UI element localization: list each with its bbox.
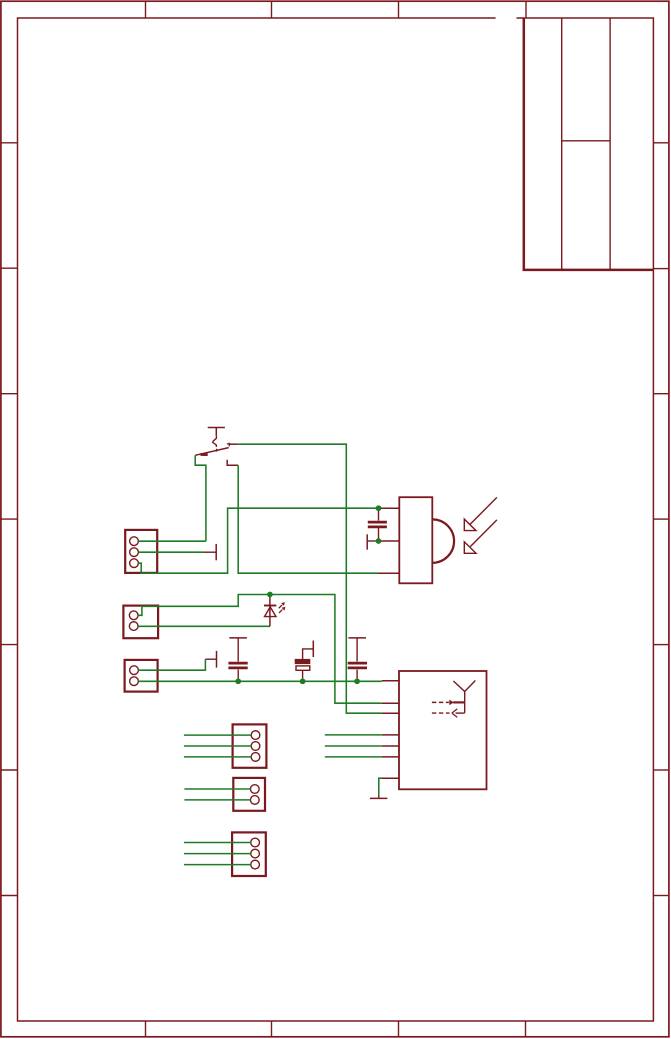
capacitor C1 at IR receiver [368, 508, 387, 541]
switch S1 contact arrow [227, 443, 230, 447]
junction at IR pin1 [376, 505, 382, 511]
module U3 TX arrow [432, 701, 449, 703]
IR receiver U2 dome [432, 519, 454, 562]
wire switch common to connector J1 pin1 [195, 455, 206, 541]
frame left row tick 1 [1, 142, 18, 144]
ground GND1 at connector J1 pin2 [204, 544, 216, 560]
supply VCC at capacitor C2 [229, 638, 247, 662]
connector J2 pin circle 1 [129, 611, 138, 620]
wire connector J3 pin1 to ground [138, 659, 205, 670]
IR receiver U2 pin 2 [379, 540, 400, 542]
LED LED1 [264, 595, 285, 627]
connector J1 [125, 530, 157, 573]
connector J6 pin circle 1 [251, 838, 260, 847]
LED1 cathode bar [264, 605, 276, 607]
wire connector J2 pin2 to LED cathode [138, 625, 270, 627]
connector J4 [233, 724, 267, 767]
supply VCC at capacitor C4 [348, 638, 366, 662]
wire connector J4 pin1 [184, 734, 251, 736]
wire connector J1 pin3 to IR pin1 [138, 508, 378, 573]
IR receiver U2 pin 3 [379, 572, 400, 574]
connector J1 pin circle 1 [130, 537, 139, 546]
title block divider v2 [609, 18, 611, 270]
connector J4 pin circle 3 [251, 753, 260, 762]
IR receiver U2 pin 1 [379, 507, 400, 509]
module U3 antenna [453, 681, 475, 713]
frame right row tick 7 [653, 895, 669, 897]
module U3 pin 7 [382, 777, 399, 779]
wire ground rail connector J3 pin2 to module U3 pin1 [138, 680, 381, 682]
frame right row tick 3 [653, 393, 669, 395]
wire connector J6 pin2 [184, 853, 251, 855]
frame right row tick 2 [653, 268, 669, 270]
connector J3 [125, 660, 158, 692]
LED1 light arrow 2 [279, 610, 282, 613]
switch S1 lever [195, 448, 229, 456]
junction at capacitor C2 [235, 678, 241, 684]
wire connector J1 pin1 [138, 540, 206, 542]
title block left edge [523, 18, 526, 272]
connector J4 pin circle 1 [251, 731, 260, 740]
supply VCC at switch [208, 428, 225, 436]
switch S1 spring actuator [213, 436, 217, 452]
connector J2 [123, 606, 158, 639]
ground GND3 at connector J3 pin1 [205, 651, 216, 668]
module U3 pin 6 [382, 756, 399, 758]
module U3 pin 1 [382, 680, 399, 682]
module U3 pin 3 [382, 712, 399, 714]
frame top column tick 4 [525, 1, 527, 18]
frame top column tick 2 [271, 1, 273, 18]
title block divider h [562, 140, 610, 142]
IR receiver U2 [379, 497, 497, 583]
module U3 pin 2 [382, 702, 399, 704]
junction at LED1 anode [267, 592, 273, 598]
frame left row tick 6 [1, 769, 18, 771]
wire module U3 pin6 [325, 756, 382, 758]
wire switch throw2 to IR pin3 [238, 465, 378, 573]
wire connector J6 pin3 [184, 864, 251, 866]
wire connector J4 pin3 [184, 756, 251, 758]
frame left row tick 2 [1, 267, 18, 269]
title block bottom edge [523, 269, 654, 272]
frame bottom column tick 4 [525, 1021, 527, 1037]
ground GND4 at capacitor C3 [312, 641, 314, 658]
switch S1 throw pin 1 [230, 443, 239, 445]
switch S1 throw pin 2 [227, 460, 238, 466]
wire module U3 pin7 to ground [379, 778, 382, 795]
frame right row tick 1 [653, 142, 669, 144]
wire switch throw1 to module U3 pin3 [238, 444, 382, 713]
frame left row tick 3 [1, 393, 18, 395]
connector J6 [232, 832, 266, 876]
capacitor C2 [228, 663, 247, 681]
frame left row tick 4 [1, 518, 18, 520]
connector J4 pin circle 2 [251, 742, 260, 751]
connector J5 pin circle 2 [250, 796, 259, 805]
frame left row tick 5 [1, 644, 18, 646]
IR ray arrow 1 [470, 497, 497, 524]
wire module U3 pin4 [325, 734, 382, 736]
junction at capacitor C3 [300, 678, 306, 684]
ground GND2 at IR receiver pin2 [367, 534, 378, 549]
frame left row tick 7 [1, 895, 18, 897]
module U3 RX arrow [432, 712, 450, 714]
frame right row tick 4 [653, 518, 669, 520]
connector J1 pin circle 3 [130, 559, 139, 568]
wire connector J2 pin1 to LED and module U3 pin2 [138, 595, 382, 704]
connector J3 pin circle 2 [130, 677, 139, 686]
connector J5 [233, 778, 265, 811]
LED1 stem [269, 595, 271, 627]
wire connector J5 pin1 [184, 788, 250, 790]
module U3 pin 5 [382, 745, 399, 747]
frame right row tick 6 [653, 769, 669, 771]
RF module U3 [382, 671, 487, 789]
switch S1 [195, 428, 238, 466]
junction at IR pin2 [376, 538, 382, 544]
frame bottom column tick 1 [145, 1021, 147, 1037]
IR ray arrow 2 [470, 520, 497, 547]
frame bottom column tick 2 [271, 1021, 273, 1037]
wire connector J4 pin2 [184, 745, 251, 747]
title block divider v1 [561, 18, 563, 270]
polarized capacitor C3 [295, 641, 313, 682]
frame right row tick 5 [653, 644, 669, 646]
connector J1 pin circle 2 [130, 548, 139, 557]
wire module U3 pin5 [325, 745, 382, 747]
connector J5 pin circle 1 [250, 785, 259, 794]
wire connector J1 pin2 to ground [138, 551, 204, 553]
frame top column tick 1 [145, 1, 147, 18]
capacitor C4 [348, 663, 367, 681]
LED1 triangle [265, 607, 277, 617]
LED1 light arrow 1 [279, 605, 282, 608]
module U3 pin 4 [382, 734, 399, 736]
connector J3 pin circle 1 [130, 666, 139, 675]
wire connector J5 pin2 [184, 799, 250, 801]
wire connector J6 pin1 [184, 842, 251, 844]
frame top column tick 3 [398, 1, 400, 18]
connector J6 pin circle 3 [251, 860, 260, 869]
junction at capacitor C4 [354, 678, 360, 684]
ground GND5 at module U3 pin7 [370, 795, 388, 799]
frame bottom column tick 3 [398, 1021, 400, 1037]
connector J6 pin circle 2 [251, 849, 260, 858]
switch S1 lever wedge [201, 453, 208, 456]
connector J2 pin circle 2 [129, 622, 138, 631]
